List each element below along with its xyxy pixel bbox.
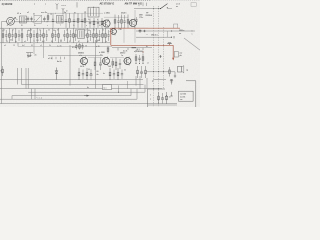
capacitor C33 xyxy=(63,30,65,41)
switch S1 xyxy=(160,4,172,10)
wire y99 corner xyxy=(136,89,138,100)
capacitor C7c xyxy=(97,19,99,28)
capacitor C20 xyxy=(26,30,28,41)
svg-text:8: 8 xyxy=(1,71,2,73)
label footer marks xyxy=(0,0,1,1)
inductor L1 ferrite rod xyxy=(7,17,16,25)
svg-text:1n: 1n xyxy=(19,35,21,37)
svg-text:o: o xyxy=(150,98,151,100)
svg-text:C30: C30 xyxy=(119,29,122,31)
node red tick xyxy=(142,52,144,54)
svg-text:ton 5k: ton 5k xyxy=(180,95,185,98)
resistor R73 xyxy=(117,68,119,80)
label value bot 6 xyxy=(60,41,62,43)
capacitor C4 xyxy=(65,14,67,28)
label value sub 0 xyxy=(4,45,6,47)
wire y103 xyxy=(0,103,177,105)
label top band value 5 xyxy=(61,19,63,21)
svg-text:a+ 2u: a+ 2u xyxy=(57,46,62,48)
svg-text:2k: 2k xyxy=(61,19,63,21)
speaker box SP1 xyxy=(178,66,184,73)
wire dial cord dashed 1 xyxy=(153,6,155,107)
wire drop x43 xyxy=(43,43,45,58)
wire corner v2 xyxy=(34,89,36,100)
svg-text:3v: 3v xyxy=(73,25,75,27)
label value top 6 xyxy=(57,30,59,32)
resistor R80 xyxy=(158,92,160,104)
resistor R7d xyxy=(101,18,103,28)
capacitor C6 xyxy=(81,14,83,28)
capacitor C51 xyxy=(26,53,33,59)
wire main signal bus xyxy=(14,20,105,23)
label top band value b0 xyxy=(21,25,23,27)
label brow2 xyxy=(108,66,111,68)
label top band value b4 xyxy=(73,25,75,27)
resistor R34b xyxy=(73,28,75,43)
wire red top horizontal xyxy=(111,27,180,29)
svg-text:15: 15 xyxy=(63,35,65,37)
label squiggle xyxy=(36,98,43,100)
label values a xyxy=(2,30,12,41)
svg-text:AE 575/3V G: AE 575/3V G xyxy=(100,2,115,5)
transistor TR5 xyxy=(102,57,110,66)
label value top 10 xyxy=(93,30,95,32)
svg-text:90: 90 xyxy=(85,35,87,37)
wire y55 stub xyxy=(48,54,103,56)
capacitor C31 xyxy=(54,30,56,41)
capacitor C2 xyxy=(43,17,45,22)
antenna AN1 xyxy=(56,3,59,9)
capacitor trimmer CT2 xyxy=(30,17,32,22)
resistor R60 xyxy=(94,58,96,70)
wire y99 xyxy=(0,98,137,100)
blob left edge xyxy=(2,66,4,76)
svg-text:a2: a2 xyxy=(52,35,54,37)
inductor L2 box xyxy=(20,16,27,23)
svg-text:1n: 1n xyxy=(16,19,18,21)
connector box mid xyxy=(103,85,112,90)
box amplifier top right xyxy=(186,81,196,107)
resistor R30 xyxy=(52,28,54,43)
node header ticks xyxy=(139,2,147,6)
label values c xyxy=(53,30,62,42)
svg-text:c1: c1 xyxy=(27,12,29,14)
label top band value b5 xyxy=(86,25,87,27)
wire y92 corner xyxy=(144,85,146,93)
resistor R2 xyxy=(69,13,71,28)
svg-text:u1: u1 xyxy=(21,30,23,32)
svg-text:2k 05: 2k 05 xyxy=(80,66,84,68)
label value mid 5 xyxy=(63,35,65,37)
node dot b1 xyxy=(171,30,172,37)
wire rail y13 xyxy=(48,12,104,14)
resistor R40 xyxy=(105,28,107,43)
node tick x175 xyxy=(173,36,175,38)
svg-text:u: u xyxy=(34,19,35,21)
label top band value b1 xyxy=(34,25,36,27)
svg-text:2p: 2p xyxy=(50,13,52,15)
wire audio link2 xyxy=(110,57,124,59)
capacitor C37 xyxy=(98,30,100,41)
svg-text:a2: a2 xyxy=(24,41,26,43)
node tick right xyxy=(170,92,172,96)
wire mid stub v xyxy=(123,27,125,42)
inductor IF2 box xyxy=(78,30,85,38)
wire bus y46 xyxy=(18,45,112,47)
resistor R14 xyxy=(15,28,17,43)
wire y72 bus xyxy=(146,71,175,73)
label row values xyxy=(57,45,100,49)
wire mid stub v2 xyxy=(134,10,136,43)
label value bot 11 xyxy=(105,41,107,43)
resistor R62 xyxy=(135,54,137,63)
label value mid 6 xyxy=(74,34,77,37)
node y72 dots xyxy=(153,71,164,72)
label value top 5 xyxy=(48,30,50,32)
svg-text:0.5 4v: 0.5 4v xyxy=(72,46,77,49)
label value top 2 xyxy=(21,30,23,32)
label value sub 3 xyxy=(31,45,33,47)
wire x175 drop xyxy=(174,72,176,77)
svg-text:33: 33 xyxy=(6,41,8,43)
label value bot 3 xyxy=(33,41,35,43)
svg-text:tr 05: tr 05 xyxy=(96,45,100,48)
label value mid 4 xyxy=(52,35,54,37)
label top band value 4 xyxy=(52,19,54,21)
label top band value b3 xyxy=(60,25,61,27)
svg-text:o1: o1 xyxy=(147,62,149,64)
resistor R12 xyxy=(9,28,11,43)
svg-text:15: 15 xyxy=(75,30,77,32)
diode D1 xyxy=(55,68,58,80)
label blob xyxy=(1,71,2,73)
label y49 blob xyxy=(137,49,140,51)
svg-text:1k2: 1k2 xyxy=(108,66,111,68)
capacitor C38 xyxy=(107,30,109,41)
resistor R37 xyxy=(93,28,95,43)
svg-text:6v: 6v xyxy=(15,41,17,43)
label top band value b2 xyxy=(47,25,48,27)
label value sub 5 xyxy=(49,45,51,47)
svg-text:2SB 4a x: 2SB 4a x xyxy=(151,34,158,37)
svg-text:u 2SA: u 2SA xyxy=(104,11,110,14)
capacitor C26 xyxy=(46,30,48,41)
label tr4 xyxy=(78,52,84,57)
resistor R16 xyxy=(21,28,23,43)
label ext1 xyxy=(179,30,185,35)
wire right bus A xyxy=(136,30,195,32)
svg-text:90: 90 xyxy=(93,30,95,32)
box dial corner xyxy=(153,80,167,82)
svg-text:2n: 2n xyxy=(35,54,37,56)
svg-text:1: 1 xyxy=(150,94,151,96)
resistor R3b xyxy=(84,13,86,28)
wire vert x140 xyxy=(139,76,141,89)
label tr6 xyxy=(120,52,125,57)
label c51 xyxy=(35,54,37,56)
resistor R71 xyxy=(86,68,88,80)
resistor R47 xyxy=(107,46,109,54)
resistor R43b xyxy=(79,43,81,49)
label value bot 10 xyxy=(96,41,98,43)
inductor T1 box xyxy=(57,15,64,23)
svg-text:c: c xyxy=(45,3,46,5)
svg-text:u( 2SB34 6: u( 2SB34 6 xyxy=(134,50,143,53)
capacitor trimmer CT1 xyxy=(27,17,29,22)
label CT xyxy=(27,12,29,14)
wire diagonal antenna lead xyxy=(184,38,201,51)
svg-text:x2: x2 xyxy=(96,35,98,37)
svg-text:22: 22 xyxy=(25,19,27,21)
label sp xyxy=(186,69,189,71)
node junction a xyxy=(102,21,103,22)
capacitor C9r xyxy=(135,17,137,24)
wire red bottom horizontal xyxy=(111,45,173,46)
capacitor C35 xyxy=(69,30,71,41)
node tick 161 xyxy=(159,55,161,58)
label tick y87 xyxy=(87,86,89,89)
label value mid 2 xyxy=(30,35,32,37)
svg-text:4u: 4u xyxy=(97,73,99,76)
svg-text:os: os xyxy=(176,6,178,8)
capacitor gang VC1 dashed box xyxy=(34,15,42,23)
resistor R38 xyxy=(96,28,98,43)
node red arrow xyxy=(172,58,174,61)
label top band value 6 xyxy=(70,19,71,21)
svg-text:60: 60 xyxy=(97,71,99,73)
capacitor C13 xyxy=(11,30,13,41)
node tick x77 xyxy=(76,2,78,7)
svg-text:0.5: 0.5 xyxy=(100,55,102,57)
resistor R34 xyxy=(67,28,69,43)
svg-text:05: 05 xyxy=(8,35,10,37)
label busA row xyxy=(146,34,158,48)
svg-text:50: 50 xyxy=(88,30,90,32)
resistor R64 xyxy=(137,66,139,78)
resistor R7b xyxy=(93,18,95,28)
label mr xyxy=(134,50,143,53)
wire top border dashed xyxy=(0,0,200,2)
svg-text:1n: 1n xyxy=(39,30,41,32)
capacitor C7a xyxy=(89,19,91,28)
antenna AN2 xyxy=(62,8,65,15)
capacitor C72 xyxy=(113,70,115,80)
resistor R50 box xyxy=(174,52,178,57)
label value top 0 xyxy=(3,30,5,32)
resistor R63 xyxy=(142,54,144,63)
wire y84 xyxy=(22,84,144,86)
resistor R70 xyxy=(78,68,80,80)
svg-text:2k: 2k xyxy=(3,30,5,32)
label top right xyxy=(176,2,181,7)
svg-text:175 v: 175 v xyxy=(139,17,143,19)
resistor R36 xyxy=(87,28,89,43)
wire red feed vertical xyxy=(110,28,112,45)
resistor R32 xyxy=(58,28,60,43)
capacitor C9 xyxy=(123,15,125,28)
label inbox marks xyxy=(150,94,171,100)
capacitor C22 xyxy=(33,30,35,41)
connector J1 box xyxy=(191,3,196,7)
resistor R3 xyxy=(77,13,79,28)
transistor TR3 mid xyxy=(110,28,117,36)
transistor TR1 xyxy=(102,19,110,28)
svg-text:a2: a2 xyxy=(66,30,68,32)
node ticks y50 xyxy=(118,48,143,51)
transistor TR4 xyxy=(80,57,88,66)
wire audio link1 xyxy=(88,57,102,59)
resistor R72 xyxy=(109,68,111,80)
capacitor C36 xyxy=(89,30,91,41)
label value mid 8 xyxy=(96,35,98,37)
svg-text:a 6v: a 6v xyxy=(79,55,82,57)
capacitor C62 xyxy=(138,55,140,63)
capacitor C3 xyxy=(52,14,54,28)
resistor R21 xyxy=(30,28,32,43)
transistor TR2 xyxy=(128,18,136,27)
resistor R39 xyxy=(102,28,104,43)
label header band2 xyxy=(125,2,143,5)
capacitor C34b xyxy=(75,30,77,41)
wire vert x95.5 xyxy=(95,40,97,89)
capacitor C63 xyxy=(140,66,142,78)
wire antenna to bus xyxy=(2,21,7,23)
connector box small xyxy=(174,24,178,28)
svg-text:AM TF MW 4 G: AM TF MW 4 G xyxy=(125,2,143,5)
wire vert x127 xyxy=(127,81,129,89)
svg-text:33: 33 xyxy=(48,30,50,32)
label value top 11 xyxy=(102,30,104,32)
label OSC xyxy=(41,12,48,14)
resistor R4 xyxy=(114,15,116,29)
resistor R61 xyxy=(115,58,117,70)
capacitor C61 xyxy=(119,59,121,69)
label if1 xyxy=(84,12,87,14)
svg-text:2k: 2k xyxy=(34,25,36,27)
label value bot 9 xyxy=(87,41,89,43)
svg-text:2k: 2k xyxy=(124,69,126,71)
svg-text:2k: 2k xyxy=(53,30,55,32)
label value bot 5 xyxy=(51,41,53,43)
node dots box xyxy=(153,89,159,90)
box amplifier outline xyxy=(148,89,166,107)
svg-text:2SB 2: 2SB 2 xyxy=(120,52,125,54)
label value bot 4 xyxy=(42,40,45,43)
wire box bottom line xyxy=(148,104,177,106)
node arrow y95 xyxy=(84,95,90,97)
resistor R66 xyxy=(169,67,171,77)
svg-text:vol 10k: vol 10k xyxy=(180,93,186,95)
label ant marks xyxy=(62,5,67,7)
svg-text:ph: ph xyxy=(180,55,182,57)
svg-text:05: 05 xyxy=(88,69,90,71)
resistor R25 xyxy=(43,28,45,43)
label value sub 2 xyxy=(22,44,25,47)
label y50 row xyxy=(123,49,137,52)
inductor IF1 box xyxy=(88,7,99,17)
label tr1 xyxy=(104,11,110,14)
svg-text:2SB56: 2SB56 xyxy=(78,52,84,54)
wire switch feed xyxy=(134,7,161,10)
label top band value 0 xyxy=(16,19,18,21)
svg-text:2SA 1: 2SA 1 xyxy=(121,11,127,14)
wire y95 xyxy=(12,95,131,97)
wire left edge xyxy=(1,22,3,104)
svg-text:3v: 3v xyxy=(88,19,90,21)
node ticks row xyxy=(52,57,65,60)
label tp xyxy=(146,13,153,17)
wire x118 stub xyxy=(118,85,119,92)
label value bot 2 xyxy=(24,41,26,43)
label title ticks xyxy=(34,3,46,5)
svg-text:u1: u1 xyxy=(87,41,89,43)
node marks x171 xyxy=(170,79,173,81)
label values b xyxy=(28,29,39,42)
label header band1 xyxy=(100,2,115,5)
svg-text:15: 15 xyxy=(33,41,35,43)
svg-text:1n: 1n xyxy=(99,25,101,27)
resistor R10 xyxy=(2,28,4,43)
capacitor C73 xyxy=(121,70,123,80)
label c4 xyxy=(74,12,77,15)
svg-text:4) 903/49: 4) 903/49 xyxy=(2,2,13,6)
label L1 xyxy=(17,10,68,16)
svg-text:2k: 2k xyxy=(69,41,71,43)
svg-text:x2: x2 xyxy=(102,30,104,32)
svg-text:1u: 1u xyxy=(169,97,171,99)
label bottom row1 xyxy=(48,58,62,63)
node dots mr xyxy=(136,63,144,64)
label top band value 3 xyxy=(43,18,45,21)
label top band value 2 xyxy=(34,19,35,21)
svg-text:6v: 6v xyxy=(41,35,43,37)
capacitor C11 xyxy=(5,30,7,41)
svg-text:6v: 6v xyxy=(57,30,59,32)
capacitor C8 xyxy=(117,15,119,28)
label tr right xyxy=(139,15,143,19)
wire mid bus lower xyxy=(0,42,110,44)
svg-text:90: 90 xyxy=(51,41,53,43)
svg-text:a2: a2 xyxy=(4,45,6,47)
wire corner y43-y46 xyxy=(17,43,19,47)
svg-text:1k: 1k xyxy=(85,45,87,47)
svg-text:05: 05 xyxy=(52,19,54,21)
wire y95 corner xyxy=(12,89,131,100)
resistor R5b xyxy=(127,15,129,29)
control box VOL xyxy=(179,91,194,101)
label under tr xyxy=(88,69,126,75)
transistor TR6 xyxy=(123,57,131,66)
wire dial cord dashed 2 xyxy=(158,6,160,107)
label value mid 3 xyxy=(41,35,43,37)
label top band value 1 xyxy=(25,19,27,21)
label value top 1 xyxy=(12,29,14,32)
svg-text:05: 05 xyxy=(21,25,23,27)
label c30 xyxy=(119,29,122,31)
capacitor C50 red stub xyxy=(167,42,171,45)
label T1 xyxy=(55,12,56,15)
capacitor C65 xyxy=(170,79,173,85)
svg-text:33: 33 xyxy=(30,35,32,37)
resistor R23 xyxy=(36,28,38,43)
label value top 9 xyxy=(84,29,87,32)
label value mid 7 xyxy=(85,35,87,37)
capacitor C71 xyxy=(90,69,92,80)
label top band value 8 xyxy=(88,19,90,21)
label tr2 xyxy=(121,11,127,14)
wire drop x34 xyxy=(33,43,35,54)
label value top 4 xyxy=(39,30,41,32)
